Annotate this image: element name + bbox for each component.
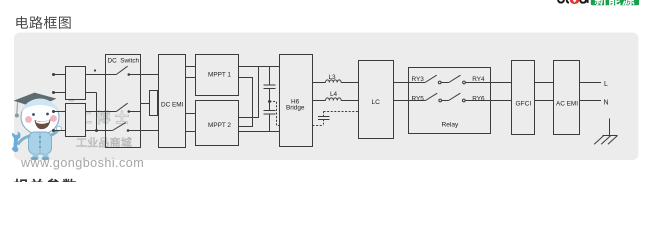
svg-text:RY3: RY3 — [412, 76, 425, 83]
inverter U4 H6 Bridge box — [280, 55, 313, 147]
wire DC EMI to MPPT2 b — [186, 131, 196, 133]
wire DC EMI to MPPT1 b — [186, 77, 196, 79]
wire H6 to L3 — [313, 82, 326, 84]
node PV input terminal 3 — [52, 110, 55, 113]
filter U7 AC EMI box — [554, 61, 580, 135]
wire L3 to LC — [341, 82, 358, 84]
varistor box RV1 — [150, 91, 158, 116]
wire row4 to fuse box — [54, 130, 66, 132]
brand badge green 新能源 — [591, 0, 639, 6]
breaker U6 GFCI box — [512, 61, 535, 135]
wire row3 fuse to switch — [86, 111, 117, 113]
wire row3 switch to bus — [129, 111, 141, 113]
node neg bus junction — [95, 129, 98, 132]
converter U3 MPPT2 box — [196, 101, 239, 146]
svg-text:Relay: Relay — [442, 122, 460, 129]
mascot body — [19, 126, 62, 160]
svg-text:L: L — [604, 81, 608, 88]
wire MPPT1 neg out — [239, 78, 253, 127]
svg-text:AC EMI: AC EMI — [556, 100, 578, 107]
svg-text:www.gongboshi.com: www.gongboshi.com — [20, 156, 144, 170]
next section heading (clipped) 相关参数 — [14, 178, 77, 192]
filter U5 LC box — [359, 61, 394, 139]
brand logo top right (clipped letters) — [558, 0, 588, 3]
relay RY4 blade — [449, 75, 461, 82]
node PV input terminal 2 — [52, 91, 55, 94]
brand logo red dot — [570, 0, 580, 4]
page background — [0, 0, 665, 182]
relay RY6 blade — [449, 93, 461, 100]
switch S1 blade row4 — [113, 122, 126, 130]
filter U1 DC EMI box — [159, 55, 186, 148]
fuse box F2 — [66, 104, 86, 137]
node RY4 contact — [463, 81, 466, 84]
wire RY3 to RY4 — [441, 82, 449, 84]
wire row2 to fuse box — [54, 92, 66, 94]
node bus midpoint — [268, 100, 271, 103]
wire MPPT2 pos riser — [239, 67, 259, 118]
wire C3 dashed to H6 — [313, 125, 324, 127]
wire L4 to LC — [341, 100, 358, 102]
wire row1 switch to DC EMI — [129, 74, 159, 76]
mascot head — [21, 98, 59, 134]
mascot wrench — [12, 132, 21, 153]
node switch contact row1 — [128, 73, 131, 76]
node switch contact row3 — [128, 110, 131, 113]
mascot tassel ball circle — [68, 94, 75, 101]
svg-text:DC EMI: DC EMI — [161, 102, 184, 109]
switch S1 blade row1 — [116, 66, 127, 74]
wire DC EMI to MPPT2 a — [186, 113, 196, 115]
capacitor C2 — [264, 110, 276, 112]
wire LC to relay bottom — [394, 100, 426, 102]
wire RY5 to RY6 — [442, 100, 449, 102]
relay RY3 blade — [425, 75, 437, 82]
diagram gray panel — [14, 33, 639, 161]
wire row3 to fuse box — [54, 111, 66, 113]
node RY5 contact — [439, 99, 442, 102]
wire midpoint dashed link — [270, 102, 280, 126]
switch S1 blade row3 — [116, 103, 127, 111]
mascot graduation cap — [14, 93, 57, 118]
fuse box F1 — [66, 67, 86, 100]
svg-text:N: N — [604, 99, 609, 106]
wire DC EMI to MPPT1 a — [186, 66, 196, 68]
svg-text:DC Switch: DC Switch — [108, 58, 140, 65]
wire output N — [580, 100, 602, 102]
inductor L4 — [326, 98, 342, 101]
svg-text:LC: LC — [372, 99, 381, 106]
wire output L — [580, 82, 602, 84]
switch S1 box — [106, 55, 141, 148]
wire GFCI to AC EMI top — [535, 82, 554, 84]
capacitor C3 — [323, 112, 325, 117]
wire DC bus top rail — [239, 66, 280, 68]
wire row4 fuse to switch — [86, 130, 113, 132]
node RY3 contact — [438, 81, 441, 84]
wire neutral dashed to LC — [324, 111, 359, 113]
wire RY6 out — [465, 100, 511, 102]
svg-text:GFCI: GFCI — [516, 100, 532, 107]
watermark text 工博士 (outline) — [78, 111, 128, 124]
wire neg bus vertical — [96, 93, 98, 131]
converter U2 MPPT1 box — [196, 55, 239, 96]
wire GFCI to AC EMI bottom — [535, 100, 554, 102]
svg-text:RY6: RY6 — [472, 95, 485, 102]
svg-text:L4: L4 — [330, 91, 338, 98]
svg-text:RY5: RY5 — [412, 95, 425, 102]
capacitor C1 — [269, 67, 271, 86]
wire H6 to L4 — [313, 100, 326, 102]
node PV input terminal 1 — [52, 73, 55, 76]
relay RY5 blade — [426, 93, 438, 100]
node RY6 contact — [462, 99, 465, 102]
wire row1 fuse to switch — [86, 74, 117, 76]
inductor L3 — [326, 80, 342, 83]
svg-text:L3: L3 — [329, 74, 337, 81]
wire row2 fuse to neg bus — [86, 92, 97, 94]
svg-text:Bridge: Bridge — [286, 105, 305, 112]
wire DC bus bottom rail — [239, 131, 280, 133]
watermark text 工业品商城 — [77, 137, 132, 147]
svg-text:RY4: RY4 — [472, 76, 485, 83]
wire row1 to fuse box — [54, 74, 66, 76]
svg-text:MPPT 2: MPPT 2 — [208, 122, 231, 129]
ground PE — [594, 119, 617, 145]
wire LC to relay top — [394, 82, 426, 84]
wire varistor stub — [141, 103, 150, 105]
node PV input terminal 4 — [52, 129, 55, 132]
wire row4 switch to DC EMI — [128, 130, 159, 132]
relay K1 box — [409, 68, 491, 134]
section title 电路框图 — [16, 16, 70, 29]
node switch contact row4 — [127, 129, 130, 132]
node polarity dot — [94, 69, 96, 71]
svg-text:MPPT 1: MPPT 1 — [208, 71, 231, 78]
wire RY4 out — [465, 82, 511, 84]
